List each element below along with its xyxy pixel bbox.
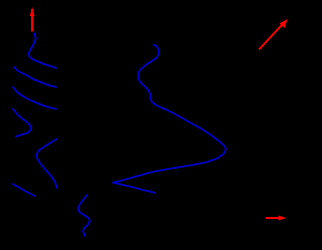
blue short stroke E (bottom-left) [13,184,35,196]
blue wavy diagonal A [14,67,56,87]
red arrow right (bottom-right) [266,216,287,221]
blue hook curve under up arrow [29,34,57,69]
red arrow up (top-left) [30,7,35,32]
red arrow diagonal (top-right) [259,19,288,50]
blue wavy diagonal B [13,87,56,109]
blue vertical squiggle (bottom-center) [78,195,90,236]
blue central smoke curve [113,45,226,193]
blue C-shaped curve D [37,139,58,188]
blue fishhook curve C [13,109,31,137]
